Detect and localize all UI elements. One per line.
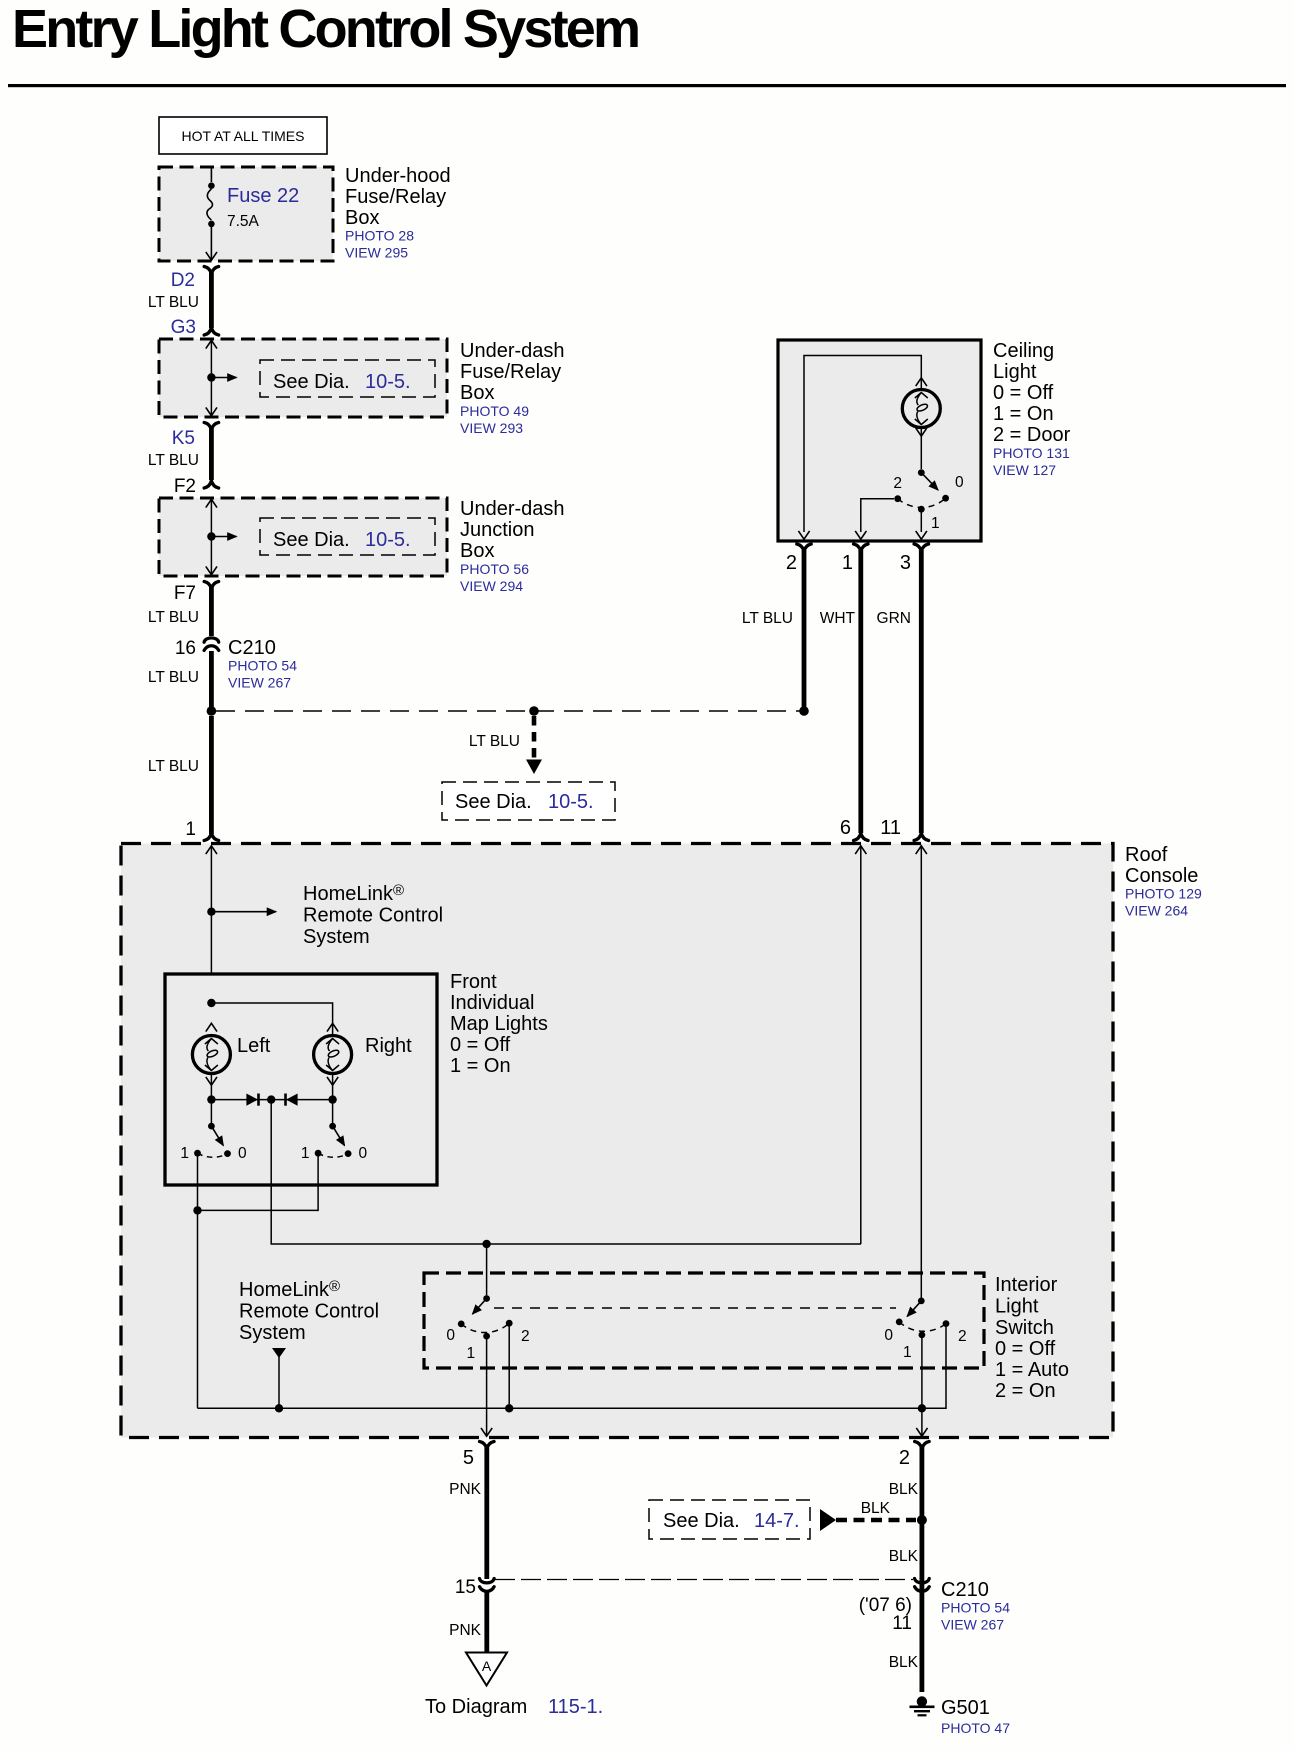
svg-text:G3: G3 [171,317,196,338]
ceiling switch common [918,469,925,476]
wire left bulb to node [210,1074,212,1127]
svg-text:0: 0 [359,1145,368,1162]
ceiling switch arc [898,498,946,507]
label To Diagram 115-1. [425,1696,603,1718]
connector C210 pin 16 [204,638,219,651]
svg-text:VIEW 127: VIEW 127 [993,462,1056,478]
svg-text:LT BLU: LT BLU [148,609,199,626]
wire switch 2-contact to pin 1 [861,499,894,532]
connector pin 2 [915,1442,929,1449]
svg-text:1: 1 [185,819,196,840]
svg-text:LT BLU: LT BLU [148,294,199,311]
wire down to left interior switch [486,1244,488,1295]
svg-text:Junction: Junction [460,519,535,541]
svg-text:PHOTO 131: PHOTO 131 [993,445,1070,461]
dashed LT BLU branch arrow down [469,716,542,774]
svg-text:BLK: BLK [861,1500,891,1517]
ganged switch linkage dashed [494,1307,896,1309]
label Roof Console [1125,844,1202,919]
svg-text:Light: Light [995,1296,1039,1318]
wire homelink to ground net [278,1355,280,1408]
svg-text:PHOTO 56: PHOTO 56 [460,561,529,577]
svg-text:VIEW 267: VIEW 267 [941,1617,1004,1633]
roof console box [121,844,1113,1438]
node homelink tap [207,908,215,916]
node pin2 wire on ground net [918,1404,926,1412]
arrow to HomeLink [211,911,276,913]
svg-text:PHOTO 47: PHOTO 47 [941,1720,1010,1736]
svg-text:LT BLU: LT BLU [742,610,793,627]
svg-text:1: 1 [180,1145,189,1162]
svg-text:System: System [239,1322,306,1344]
svg-text:Individual: Individual [450,992,535,1014]
svg-text:Map Lights: Map Lights [450,1013,548,1035]
svg-text:6: 6 [840,817,851,839]
wire diode mid down to WHT net [271,1100,861,1244]
label Under-hood Fuse/Relay Box [345,165,451,261]
svg-text:11: 11 [880,817,901,839]
svg-text:2: 2 [521,1328,530,1345]
svg-text:GRN: GRN [877,610,911,627]
svg-text:0: 0 [955,474,964,491]
wire joining right switch 1 [198,1156,319,1210]
wire GRN ceiling pin3 down [919,550,924,833]
BLK dashed branch with arrow [820,1500,916,1531]
box See Dia. 14-7. [649,1500,810,1539]
wire LT BLU C210 to junction [209,651,214,707]
node left bulb bottom [207,1095,215,1103]
svg-text:HOT AT ALL TIMES: HOT AT ALL TIMES [182,128,305,144]
svg-text:F2: F2 [174,476,196,497]
connector K5 [204,423,218,430]
svg-text:Box: Box [460,382,494,404]
svg-text:2: 2 [899,1447,910,1469]
ceiling pin connectors 2 1 3 [797,544,811,551]
diode D1 [246,1094,259,1106]
wires inside ceiling light [804,356,921,533]
svg-text:11: 11 [892,1613,912,1634]
wire LT BLU D2-G3 [209,272,214,328]
svg-text:G501: G501 [941,1697,990,1719]
svg-text:5: 5 [463,1447,474,1469]
label HomeLink Remote Control System (lower) [239,1278,379,1344]
svg-text:System: System [303,926,370,948]
node junction ceiling pin2 wire [799,706,809,716]
svg-text:Box: Box [345,207,379,229]
svg-text:Ceiling: Ceiling [993,340,1054,362]
svg-text:See Dia.: See Dia. [455,791,532,813]
svg-text:Interior: Interior [995,1274,1058,1296]
svg-text:Fuse/Relay: Fuse/Relay [460,361,561,383]
under-dash fuse/relay box [159,339,447,417]
label Ceiling Light [993,340,1071,478]
svg-text:Roof: Roof [1125,844,1168,866]
connector pin 6 [854,833,868,840]
wire left interior 2-contact down [508,1326,510,1408]
svg-text:15: 15 [455,1577,476,1598]
svg-text:BLK: BLK [889,1654,919,1671]
svg-text:14-7.: 14-7. [754,1510,800,1532]
label HomeLink Remote Control System [303,882,443,948]
inner box See Dia. 10-5. [260,360,435,397]
svg-text:PHOTO 28: PHOTO 28 [345,228,414,244]
dashed tie line to C210 [495,1579,913,1581]
under-dash junction box [159,498,447,576]
svg-text:BLK: BLK [889,1481,919,1498]
wire bulb to switch [920,429,922,470]
svg-text:Remote Control: Remote Control [303,905,443,927]
svg-text:1: 1 [903,1344,912,1361]
triangle A to diagram [466,1653,507,1686]
svg-text:0 = Off: 0 = Off [450,1034,511,1056]
svg-text:PHOTO 54: PHOTO 54 [228,658,297,674]
svg-text:16: 16 [175,638,196,659]
svg-text:See Dia.: See Dia. [273,371,350,393]
label Under-dash Junction Box [460,498,565,594]
fuse exit arrow at box edge [206,252,217,260]
wire WHT inside console [860,846,862,1245]
node homelink on ground net [275,1404,283,1412]
svg-text:2: 2 [958,1328,967,1345]
connector F2 [204,481,218,488]
svg-text:Box: Box [460,540,494,562]
svg-text:0 = Off: 0 = Off [993,382,1054,404]
wire LT BLU K5-F2 [209,428,214,480]
svg-text:VIEW 264: VIEW 264 [1125,903,1188,919]
wire PNK to diagram A [484,1592,489,1653]
svg-text:LT BLU: LT BLU [148,758,199,775]
svg-text:A: A [482,1658,492,1674]
svg-text:Remote Control: Remote Control [239,1301,379,1323]
right map switch [301,1123,368,1162]
node branch LT BLU down [529,706,539,716]
dashed wire across to ceiling pin 2 [216,710,800,712]
wire LT BLU ceiling pin2 down [802,550,807,707]
svg-text:Front: Front [450,971,497,993]
svg-text:10-5.: 10-5. [548,791,594,813]
wire PNK pin5 down [484,1447,489,1579]
wire inside under-dash fuse/relay box [210,339,212,417]
node BLK branch [917,1515,927,1525]
ceiling switch contacts [894,495,901,502]
connector D2 [204,267,218,274]
svg-text:1 = On: 1 = On [450,1055,511,1077]
svg-text:BLK: BLK [889,1548,919,1565]
wire inside junction box [210,498,212,576]
entry arrows into console pins 1 6 11 [206,846,217,854]
svg-text:VIEW 295: VIEW 295 [345,245,408,261]
svg-text:LT BLU: LT BLU [148,669,199,686]
connector G3 [204,328,218,335]
svg-text:See Dia.: See Dia. [273,529,350,551]
svg-text:LT BLU: LT BLU [148,452,199,469]
wire pin1 feed inside console [210,846,212,1123]
left map switch [180,1123,247,1162]
connector C210 pin 11 [915,1579,930,1592]
svg-text:C210: C210 [941,1579,989,1601]
node diode mid [267,1095,275,1103]
svg-text:Entry Light Control System: Entry Light Control System [12,0,638,59]
svg-text:1: 1 [467,1345,476,1362]
svg-text:Under-hood: Under-hood [345,165,451,187]
node left interior switch tap [482,1240,490,1248]
svg-text:WHT: WHT [820,610,856,627]
svg-text:PHOTO 129: PHOTO 129 [1125,886,1202,902]
svg-text:F7: F7 [174,583,196,604]
svg-text:1 = Auto: 1 = Auto [995,1359,1069,1381]
node right bulb bottom [328,1095,336,1103]
wire switch bottom to pin 3 [920,512,922,532]
connector pin 11 [914,833,928,840]
wire right bulb to node [332,1074,334,1127]
svg-text:10-5.: 10-5. [365,371,411,393]
svg-text:0: 0 [238,1145,247,1162]
connector pin 5 [480,1442,494,1449]
svg-text:VIEW 293: VIEW 293 [460,420,523,436]
wire left switch 1 down [197,1156,199,1408]
wire BLK pin2 down [920,1447,925,1692]
svg-text:C210: C210 [228,637,276,659]
ceiling light box [778,340,981,541]
homelink antenna triangle [272,1348,286,1358]
wire LT BLU F7-C210 [209,587,214,636]
svg-text:0: 0 [884,1327,893,1344]
svg-text:2 = Door: 2 = Door [993,424,1071,446]
connector pin 1 roof console [204,833,218,840]
ground net horizontal wire [198,1326,947,1408]
svg-text:Fuse/Relay: Fuse/Relay [345,186,446,208]
connector F7 [204,582,218,589]
right interior switch [884,1298,966,1362]
svg-text:Left: Left [237,1035,271,1057]
svg-text:VIEW 267: VIEW 267 [228,675,291,691]
svg-text:HomeLink®: HomeLink® [303,882,404,905]
svg-text:1: 1 [931,515,940,532]
svg-text:2: 2 [893,475,902,492]
svg-text:PNK: PNK [449,1481,482,1498]
wire diode row [211,1099,332,1101]
svg-text:2: 2 [786,552,797,574]
HOT AT ALL TIMES box [159,117,327,154]
node arrow to see-dia 10-5 [207,532,236,540]
diode D2 [284,1094,297,1106]
svg-text:7.5A: 7.5A [227,213,260,230]
svg-text:PHOTO 49: PHOTO 49 [460,403,529,419]
connector C209 pin 15 [480,1579,495,1592]
svg-text:VIEW 294: VIEW 294 [460,578,523,594]
fuse F22 7.5A [207,167,213,260]
svg-text:1: 1 [842,552,853,574]
svg-text:Switch: Switch [995,1317,1054,1339]
svg-text:PHOTO 54: PHOTO 54 [941,1600,1010,1616]
svg-text:2 = On: 2 = On [995,1380,1056,1402]
svg-text:K5: K5 [172,428,195,449]
svg-text:HomeLink®: HomeLink® [239,1278,340,1301]
label Front Individual Map Lights [450,971,548,1077]
node branch to right bulb [207,999,215,1007]
svg-text:Under-dash: Under-dash [460,498,565,520]
svg-text:To Diagram: To Diagram [425,1696,527,1718]
title divider rule [8,84,1286,87]
inner box See Dia. 10-5. [260,518,435,555]
svg-text:0 = Off: 0 = Off [995,1338,1056,1360]
svg-text:1: 1 [301,1145,310,1162]
node map 1-wires join [193,1206,201,1214]
svg-text:PNK: PNK [449,1622,482,1639]
svg-text:LT BLU: LT BLU [469,733,520,750]
ceiling bulb [902,378,940,436]
node junction on LT BLU feed [207,706,217,716]
svg-text:10-5.: 10-5. [365,529,411,551]
label Under-dash Fuse/Relay Box [460,340,565,436]
svg-text:0: 0 [446,1327,455,1344]
svg-text:Fuse 22: Fuse 22 [227,185,299,207]
label Interior Light Switch [995,1274,1069,1402]
wire LT BLU junction to roof console pin 1 [209,716,214,834]
svg-text:1 = On: 1 = On [993,403,1054,425]
node left interior 2 on ground net [505,1404,513,1412]
svg-text:115-1.: 115-1. [548,1696,603,1718]
svg-text:Under-dash: Under-dash [460,340,565,362]
ceiling switch arm to 0 [921,473,938,490]
box See Dia. 10-5. (branch) [442,782,615,820]
svg-text:Light: Light [993,361,1037,383]
svg-text:D2: D2 [171,270,195,291]
wire GRN inside console [920,846,922,1299]
svg-text:3: 3 [900,552,911,574]
wire right interior switch out (pin 2) [921,1338,923,1436]
front individual map lights box [165,974,437,1185]
right map bulb [314,1023,352,1085]
node arrow to see-dia 10-5 [207,373,236,381]
ground G501 [910,1696,935,1716]
under-hood fuse/relay box [159,167,333,261]
svg-text:See Dia.: See Dia. [663,1510,740,1532]
wire branch to right bulb [211,1003,332,1036]
wire WHT ceiling pin1 down [858,550,863,833]
svg-text:Console: Console [1125,865,1198,887]
interior light switch dashed box [424,1273,984,1368]
wire left interior switch out (pin 5) [486,1339,488,1436]
left map bulb [192,1023,230,1085]
left interior switch [446,1295,529,1362]
svg-text:Right: Right [365,1035,412,1057]
